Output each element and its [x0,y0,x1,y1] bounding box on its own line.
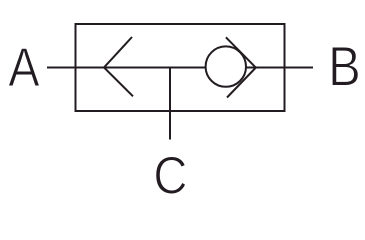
port A label [8,37,39,98]
wire: pilot line to port C [169,68,171,140]
free-flow arrow chevron [104,37,133,96]
svg-text:A: A [8,37,39,98]
svg-text:C: C [153,146,187,199]
wire: port B line [246,67,313,69]
svg-text:B: B [328,35,361,98]
wire: port A line [47,67,206,69]
valve body box [76,24,285,111]
check valve seat chevron [226,37,256,97]
port B label [328,35,361,98]
port C label [153,146,187,205]
check valve ball circle [206,46,246,86]
